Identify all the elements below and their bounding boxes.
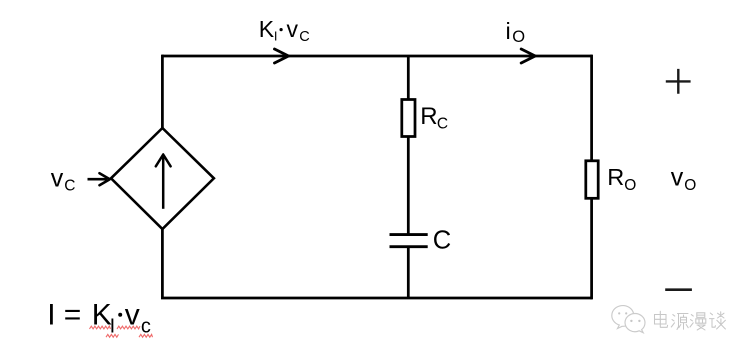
- minus sign (output polarity): [665, 288, 692, 291]
- svg-text:c: c: [141, 315, 151, 337]
- watermark icon (chat bubbles): [612, 306, 645, 333]
- svg-text:v: v: [671, 163, 684, 191]
- arrow inside source (current direction up): [156, 155, 171, 209]
- svg-text:i: i: [506, 18, 511, 44]
- plus sign (output polarity): [666, 69, 691, 94]
- svg-text:C: C: [433, 226, 451, 254]
- wire: middle branch top (junction to Rc): [407, 56, 410, 100]
- svg-text:v: v: [51, 164, 64, 192]
- wire: bottom horizontal: [161, 297, 592, 300]
- svg-text:I: I: [274, 29, 278, 44]
- wire: left vertical upper (top wire down to source top): [161, 55, 164, 128]
- spell-check squiggle under ·v: [117, 326, 140, 329]
- capacitor C (plates): [390, 235, 428, 247]
- wire: middle branch bottom (capacitor to bottom wire): [407, 247, 410, 298]
- watermark text 电源漫谈: [655, 311, 726, 330]
- svg-text:O: O: [512, 28, 525, 46]
- svg-text:C: C: [64, 177, 75, 194]
- input arrow for vC: [88, 173, 110, 185]
- resistor RO (box): [586, 161, 598, 199]
- svg-text:O: O: [684, 177, 696, 194]
- equation I = KI·vc: [47, 299, 151, 338]
- wire: right vertical lower (Ro to bottom wire): [590, 198, 593, 299]
- svg-text:R: R: [420, 103, 437, 130]
- label iO: [506, 18, 526, 46]
- label vO (output voltage): [671, 163, 697, 194]
- label KI·vC (controlling current): [259, 16, 310, 45]
- svg-text:K: K: [259, 16, 275, 42]
- label RC: [420, 103, 448, 132]
- svg-text:O: O: [624, 177, 636, 194]
- current arrow iO on top-right wire segment: [521, 49, 535, 63]
- svg-text:=: =: [64, 299, 82, 332]
- label C: [433, 226, 451, 254]
- svg-text:I: I: [47, 299, 55, 332]
- svg-text:C: C: [437, 116, 448, 133]
- spell-check squiggle under K: [90, 326, 111, 329]
- wire: right vertical upper (top wire to Ro): [590, 55, 593, 161]
- resistor RC (box): [402, 100, 415, 137]
- current arrow on top-left wire segment: [275, 49, 289, 63]
- spell-check squiggle under subscript c: [139, 334, 153, 337]
- svg-text:I: I: [110, 315, 116, 337]
- label vC (control voltage): [51, 164, 76, 194]
- svg-text:R: R: [607, 164, 624, 190]
- label RO: [607, 164, 636, 194]
- dependent current source U1 (diamond): [111, 128, 214, 229]
- wire: left vertical lower (source bottom to bottom wire): [161, 229, 164, 298]
- spell-check squiggle under subscript I: [106, 334, 119, 337]
- svg-text:v: v: [287, 16, 299, 42]
- svg-text:C: C: [299, 29, 309, 45]
- wire: top horizontal from left branch to right branch: [162, 55, 592, 58]
- wire: middle branch between Rc and capacitor: [407, 136, 410, 234]
